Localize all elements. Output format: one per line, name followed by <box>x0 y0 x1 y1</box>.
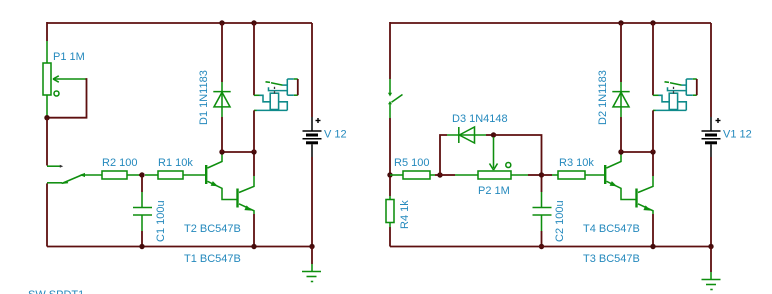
svg-text:C1 100u: C1 100u <box>155 200 167 242</box>
wire: T3 emitter to bottom rail <box>652 214 654 247</box>
wire: top rail left circuit <box>47 22 312 24</box>
junction: top rail at relay <box>251 20 256 25</box>
transistor T1 <box>238 176 255 214</box>
svg-text:SW SPDT1: SW SPDT1 <box>28 289 84 294</box>
potentiometer P2 <box>455 163 528 180</box>
wire: top rail down to D2 <box>620 23 622 82</box>
wire: D1 to collector node <box>221 117 223 152</box>
wire: D3 to node E <box>486 134 494 136</box>
wire: top rail right end down to battery V1 <box>710 23 712 117</box>
junction: top rail at relay RL2 <box>650 20 655 25</box>
wire: collector node horizontal <box>222 151 254 153</box>
diode D2 <box>612 82 629 117</box>
svg-text:C2 100u: C2 100u <box>554 200 566 242</box>
relay RL2 <box>653 79 697 110</box>
junction node F <box>539 172 544 177</box>
wire: node E bypass to node F <box>494 135 542 175</box>
wire: bottom rail left circuit <box>47 246 312 248</box>
capacitor C1 <box>133 192 152 231</box>
wire: node F down to C2 <box>541 177 543 192</box>
wire: T3 collector to node <box>652 152 654 176</box>
wire: node E to P2 wiper <box>493 137 495 168</box>
svg-text:D1 1N1183: D1 1N1183 <box>198 70 210 125</box>
wire: P1 wiper to node A <box>47 79 87 118</box>
svg-text:V1 12: V1 12 <box>723 129 752 141</box>
wire: node C down to R4 <box>389 177 391 196</box>
wire: node B down to C1 <box>141 177 143 192</box>
junction: top rail at D1 <box>219 20 224 25</box>
junction: battery at bottom rail <box>309 244 314 249</box>
wire: T1 collector to node <box>253 152 255 176</box>
wire: battery V to bottom rail <box>311 157 313 247</box>
svg-text:D2 1N1183: D2 1N1183 <box>597 70 609 125</box>
wire: bottom rail right circuit <box>390 246 711 248</box>
wire: node A down to switch upper throw <box>46 118 48 166</box>
resistor R5 <box>390 171 435 179</box>
wire: relay contact link <box>297 79 299 95</box>
switch SW2 SPST (open) <box>388 79 403 118</box>
junction: C2 at bottom rail <box>539 244 544 249</box>
capacitor C2 <box>533 192 552 231</box>
svg-text:P2 1M: P2 1M <box>478 185 510 197</box>
svg-text:V 12: V 12 <box>324 129 347 141</box>
wire: bottom rail to ground stub <box>311 247 313 265</box>
wire: P2 to node F <box>528 174 542 176</box>
wire: bottom rail to ground stub right <box>710 247 712 273</box>
junction: relay/T1 collector node <box>251 149 256 154</box>
wire: node D up to D3 <box>440 135 447 175</box>
potentiometer P1 <box>43 41 86 116</box>
svg-text:R5 100: R5 100 <box>394 157 429 169</box>
diode D3 <box>447 127 486 143</box>
junction node C <box>387 172 392 177</box>
wire: top rail down to relay <box>253 23 255 95</box>
svg-text:T1 BC547B: T1 BC547B <box>184 253 241 265</box>
wire: T1 emitter to bottom rail <box>253 214 255 247</box>
svg-text:T4 BC547B: T4 BC547B <box>583 223 640 235</box>
ground (right circuit) <box>702 272 721 290</box>
wire: top rail right end down to battery V <box>311 23 313 117</box>
battery V <box>303 117 322 157</box>
diode D1 <box>213 82 230 117</box>
transistor T3 <box>637 176 654 214</box>
wire: C1 to bottom rail <box>141 231 143 247</box>
wire: node F to R3 <box>542 174 553 176</box>
ground (left circuit) <box>302 264 321 282</box>
junction node B <box>139 172 144 177</box>
junction node E (D3 cathode-side) <box>491 132 496 137</box>
wire: collector node horizontal right <box>621 151 653 153</box>
junction: top rail at D2 <box>618 20 623 25</box>
resistor R4 <box>386 196 394 227</box>
junction: relay/T3 collector node <box>650 149 655 154</box>
wire: relay RL2 coil bottom to collector node <box>652 110 654 152</box>
wire: D2 to collector node <box>620 117 622 152</box>
svg-text:T3 BC547B: T3 BC547B <box>583 253 640 265</box>
wire: top rail right circuit <box>390 22 711 24</box>
relay RL1 <box>254 79 298 110</box>
battery V1 <box>702 117 721 157</box>
resistor R3 <box>552 171 604 179</box>
wire: battery V1 to bottom rail <box>710 157 712 247</box>
junction: battery V1 at bottom rail <box>708 244 713 249</box>
svg-text:P1 1M: P1 1M <box>53 51 85 63</box>
svg-text:T2 BC547B: T2 BC547B <box>184 223 241 235</box>
transistor T4 <box>605 153 635 200</box>
junction: D1/T2 collector node <box>219 149 224 154</box>
wire: R2 to node B <box>139 174 142 176</box>
svg-text:R4 1k: R4 1k <box>399 200 411 229</box>
switch SW1 SPDT <box>47 165 102 184</box>
wire: relay RL2 contact link <box>696 79 698 95</box>
junction: D2/T4 collector node <box>618 149 623 154</box>
junction: T3 emitter at bottom rail <box>650 244 655 249</box>
wire: node D to P2 <box>440 174 455 176</box>
wire: switch lower throw to bottom rail <box>46 183 48 246</box>
wire: R4 to bottom rail <box>389 227 391 247</box>
svg-text:R3 10k: R3 10k <box>559 157 594 169</box>
wire: rail down to P1 top <box>46 22 48 41</box>
transistor T2 <box>206 153 236 200</box>
wire: top rail down to D1 <box>221 23 223 82</box>
svg-text:R1 10k: R1 10k <box>158 157 193 169</box>
junction: C1 at bottom rail <box>139 244 144 249</box>
wire: R5 to node D <box>435 174 440 176</box>
svg-text:R2 100: R2 100 <box>102 157 137 169</box>
resistor R2 <box>102 171 139 179</box>
wire: switch to node C <box>389 118 391 175</box>
wire: rail down to switch SW2 <box>389 22 391 79</box>
wire: top rail down to relay RL2 <box>652 23 654 95</box>
svg-text:D3 1N4148: D3 1N4148 <box>452 113 508 125</box>
junction node D <box>437 172 442 177</box>
junction: T1 emitter at bottom rail <box>251 244 256 249</box>
resistor R1 <box>145 171 205 179</box>
wire: relay coil bottom to collector node <box>253 110 255 152</box>
wire: C2 to bottom rail <box>541 231 543 247</box>
junction node A <box>44 115 49 120</box>
